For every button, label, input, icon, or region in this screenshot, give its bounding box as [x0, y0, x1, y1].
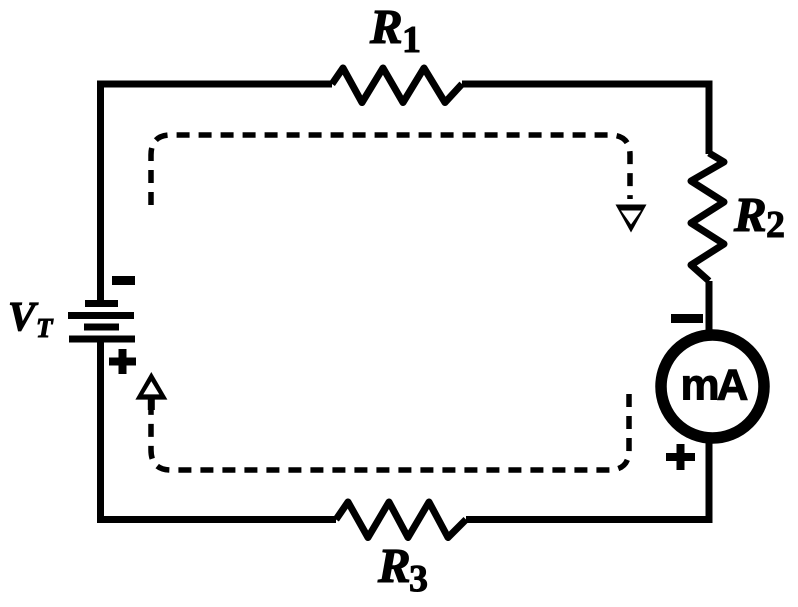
plate long bottom: [69, 336, 135, 343]
resistor R2: [691, 153, 724, 281]
battery minus sign: [112, 276, 135, 285]
svg-text:R: R: [377, 538, 411, 593]
wire: bottom wire left of R3 + left wire lower: [101, 340, 337, 520]
wire: meter to bottom-right corner + bottom wire right of R3: [466, 437, 709, 520]
battery VT plates: [68, 304, 135, 340]
svg-text:T: T: [36, 313, 54, 343]
meter minus sign: [671, 314, 703, 323]
wire: R2 to meter: [706, 281, 713, 336]
resistor R1: [332, 68, 462, 103]
ammeter mA: [661, 335, 764, 438]
plate short top: [85, 300, 118, 307]
battery plus sign: [109, 349, 136, 374]
meter plus sign: [666, 444, 695, 470]
dashed current-loop bottom segment: [151, 394, 629, 470]
svg-text:R: R: [369, 0, 403, 54]
wire: top wire right of R1 + right wire down to R2: [462, 84, 709, 154]
svg-text:V: V: [8, 293, 39, 339]
svg-text:1: 1: [402, 19, 421, 61]
arrow up (current direction, left side): [135, 372, 167, 410]
svg-text:3: 3: [409, 558, 428, 600]
wire: left-top corner (left wire upper + top wire left of R1): [101, 84, 333, 303]
arrow down (current direction, right side): [616, 205, 647, 233]
svg-text:2: 2: [766, 204, 785, 246]
plate long: [68, 312, 134, 319]
plate short: [84, 324, 119, 331]
svg-text:R: R: [733, 187, 767, 242]
dashed current-loop top segment: [151, 135, 630, 205]
resistor R3: [336, 502, 466, 538]
svg-text:mA: mA: [681, 361, 748, 410]
